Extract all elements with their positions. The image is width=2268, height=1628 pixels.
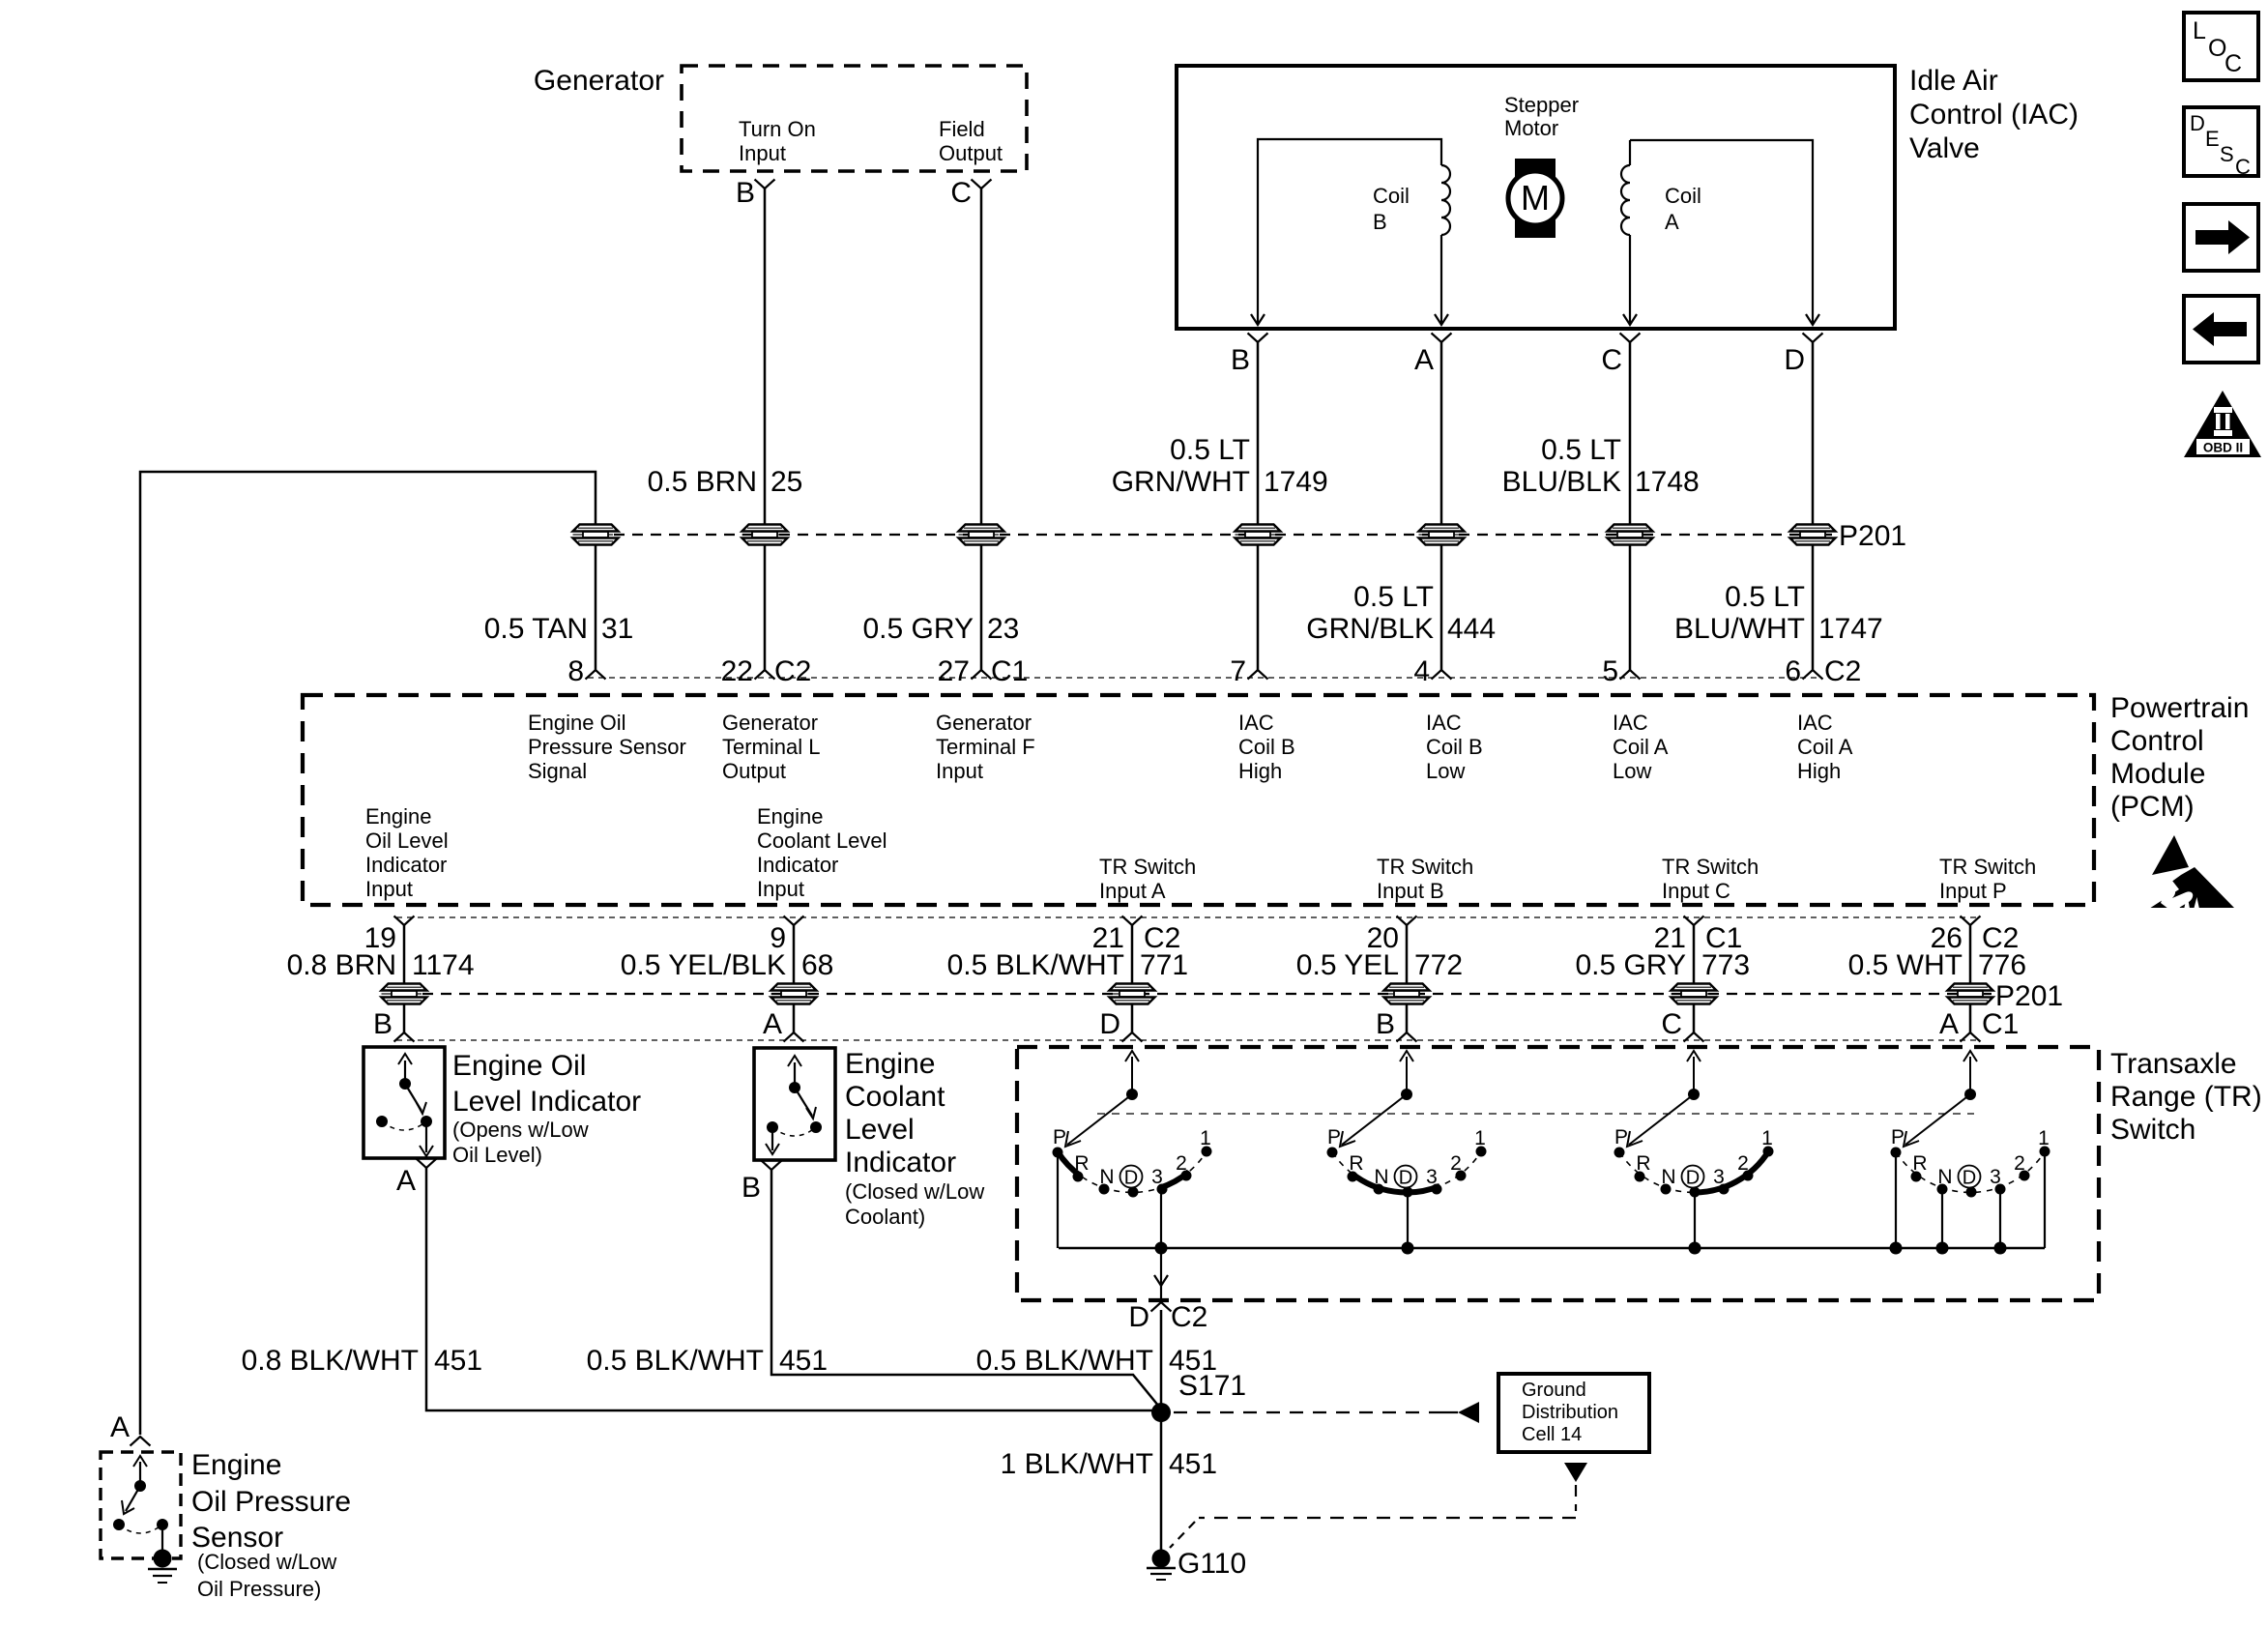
label 0.5 BRN 25	[648, 466, 803, 498]
svg-text:Engine: Engine	[845, 1048, 935, 1080]
TR bus junction at x=2069	[1994, 1242, 2007, 1255]
svg-text:B: B	[1376, 1008, 1395, 1040]
svg-text:Input B: Input B	[1377, 879, 1444, 903]
TR switch pin B	[1376, 1008, 1417, 1042]
connector P201 grommet at x=821 (lower row)	[771, 984, 817, 1004]
svg-text:Input: Input	[365, 877, 413, 901]
svg-text:Input: Input	[757, 877, 804, 901]
label P201 (lower)	[1995, 980, 2063, 1012]
svg-text:1747: 1747	[1818, 613, 1883, 645]
svg-text:773: 773	[1701, 949, 1750, 981]
coolant level indicator pin A	[763, 1008, 804, 1042]
PCM pin 5	[1602, 655, 1640, 687]
svg-text:Indicator: Indicator	[365, 853, 447, 877]
label 0.5 YEL 772	[1296, 949, 1463, 981]
svg-text:C: C	[1661, 1008, 1682, 1040]
svg-text:Output: Output	[939, 141, 1003, 165]
label Powertrain Control Module (PCM)	[2110, 692, 2249, 823]
generator component box (dashed)	[682, 66, 1027, 171]
svg-text:G110: G110	[1178, 1548, 1246, 1580]
svg-text:Turn On: Turn On	[739, 117, 816, 141]
connector P201 grommet at x=2038 (lower row)	[1948, 984, 1993, 1004]
wire 0.5 YEL 772 (PCM to P201 to component)	[1406, 925, 1409, 1032]
svg-text:Level Indicator: Level Indicator	[452, 1086, 641, 1118]
svg-text:High: High	[1238, 759, 1282, 783]
svg-text:A: A	[1414, 344, 1434, 376]
wire 1 BLK/WHT 451 (S171 to G110)	[1160, 1412, 1163, 1551]
legend box LOC	[2184, 13, 2258, 80]
label Stepper Motor	[1504, 93, 1579, 140]
svg-text:Field: Field	[939, 117, 985, 141]
wire 0.5 BLK/WHT 451 (TR switch to S171)	[1160, 1310, 1163, 1412]
svg-text:Generator: Generator	[936, 711, 1032, 735]
svg-text:C1: C1	[1982, 1008, 2019, 1040]
wire 0.5 WHT 776 (PCM to P201 to component)	[1969, 925, 1972, 1032]
svg-text:Coil A: Coil A	[1797, 735, 1853, 759]
label 0.5 GRY 23	[862, 613, 1019, 645]
PCM pin label IAC Coil B Low	[1426, 711, 1483, 783]
svg-text:Indicator: Indicator	[845, 1147, 956, 1178]
svg-text:1: 1	[1761, 1127, 1773, 1149]
svg-text:Transaxle: Transaxle	[2110, 1048, 2237, 1080]
connector P201 grommet at x=418 (lower row)	[382, 984, 427, 1004]
wire 0.5 GRY 773 (PCM to P201 to component)	[1693, 925, 1696, 1032]
TR switch output wire to pin D C2	[1154, 1248, 1168, 1302]
svg-text:0.5 YEL: 0.5 YEL	[1296, 949, 1399, 981]
wire 0.5 TAN 31 (oil pressure sensor to PCM pin 8)	[140, 472, 596, 1435]
svg-text:0.5 LT: 0.5 LT	[1170, 434, 1250, 466]
TR switch pin C	[1661, 1008, 1703, 1042]
generator pin B	[736, 177, 775, 209]
label 0.5 LT GRN/WHT 1749	[1112, 434, 1328, 498]
PCM pin 4	[1413, 655, 1451, 687]
TR switch contact group B (input from PCM 20)	[1327, 1051, 1487, 1248]
label 0.5 YEL/BLK 68	[621, 949, 834, 981]
svg-text:B: B	[373, 1008, 393, 1040]
svg-text:451: 451	[779, 1345, 828, 1377]
inductor Coil A	[1621, 140, 1630, 325]
svg-text:Switch: Switch	[2110, 1114, 2195, 1146]
label Transaxle Range (TR) Switch	[2110, 1048, 2262, 1146]
svg-text:2: 2	[1176, 1152, 1187, 1175]
svg-text:Distribution: Distribution	[1522, 1402, 1618, 1423]
svg-text:R: R	[1636, 1152, 1650, 1175]
label 0.8 BRN 1174	[287, 949, 475, 981]
svg-text:771: 771	[1140, 949, 1188, 981]
PCM bottom pin face line (thin dashed)	[396, 916, 1978, 918]
PCM pin 19	[364, 916, 415, 955]
label 0.5 BLK/WHT 451 (coolant)	[587, 1345, 828, 1377]
TR switch contact group C (input from PCM 21 C1)	[1614, 1051, 1774, 1248]
PCM pin label TR Switch Input B	[1377, 855, 1473, 903]
label 0.8 BLK/WHT 451	[242, 1345, 482, 1377]
TR switch ground bus wire	[1059, 1247, 2045, 1250]
PCM pin 8	[567, 655, 605, 687]
svg-text:0.5 BLK/WHT: 0.5 BLK/WHT	[947, 949, 1124, 981]
svg-text:L: L	[2193, 17, 2206, 44]
svg-text:A: A	[1939, 1008, 1959, 1040]
oil level indicator pin B	[373, 1008, 415, 1042]
svg-text:Signal: Signal	[528, 759, 587, 783]
svg-text:E: E	[2205, 127, 2220, 151]
svg-text:0.5 BRN: 0.5 BRN	[648, 466, 757, 498]
svg-text:C: C	[1601, 344, 1622, 376]
svg-text:C2: C2	[1171, 1301, 1207, 1333]
svg-text:Terminal L: Terminal L	[722, 735, 820, 759]
PCM pin 27 C1	[938, 655, 1029, 687]
svg-text:TR Switch: TR Switch	[1939, 855, 2036, 879]
svg-text:C2: C2	[1824, 655, 1861, 687]
svg-text:5: 5	[1602, 655, 1618, 687]
svg-text:A: A	[1665, 210, 1679, 234]
TR bus junction at x=1753	[1689, 1242, 1701, 1255]
svg-text:0.5 GRY: 0.5 GRY	[1575, 949, 1686, 981]
TR bus junction at x=2009	[1936, 1242, 1949, 1255]
svg-text:Coil B: Coil B	[1426, 735, 1483, 759]
svg-text:Range (TR): Range (TR)	[2110, 1081, 2262, 1113]
svg-text:TR Switch: TR Switch	[1099, 855, 1196, 879]
label Engine Coolant Level Indicator	[845, 1048, 984, 1229]
svg-text:C: C	[950, 177, 972, 209]
TR bus junction at x=1961	[1890, 1242, 1903, 1255]
svg-text:444: 444	[1447, 613, 1496, 645]
PCM pin 21 C2	[1092, 916, 1181, 955]
TR bus junction at x=1456	[1402, 1242, 1414, 1255]
connector P201 grommet at x=1875 (upper row)	[1790, 525, 1836, 545]
PCM pin label IAC Coil A High	[1797, 711, 1853, 783]
svg-text:1 BLK/WHT: 1 BLK/WHT	[1001, 1448, 1153, 1480]
Transaxle Range (TR) Switch box (dashed)	[1017, 1047, 2099, 1300]
svg-text:451: 451	[434, 1345, 482, 1377]
svg-text:0.5 BLK/WHT: 0.5 BLK/WHT	[976, 1345, 1153, 1377]
wire 0.5 GRY 23 (generator C to PCM 27)	[980, 189, 983, 670]
label Generator	[534, 65, 664, 97]
PCM pin label Generator Terminal F Input	[936, 711, 1035, 783]
PCM pin label TR Switch Input C	[1662, 855, 1759, 903]
svg-text:P: P	[1614, 1126, 1628, 1148]
IAC pin C	[1601, 334, 1640, 377]
svg-text:TR Switch: TR Switch	[1377, 855, 1473, 879]
IAC internal arrow at x=1301	[1251, 314, 1265, 325]
coolant level indicator pin B (bottom)	[741, 1161, 782, 1205]
svg-text:D: D	[1399, 1168, 1412, 1189]
connector P201 grommet at x=1686 (upper row)	[1608, 525, 1653, 545]
svg-text:3: 3	[1426, 1166, 1438, 1188]
svg-text:D: D	[2190, 111, 2205, 135]
svg-text:772: 772	[1414, 949, 1463, 981]
oil level indicator pin A (bottom)	[396, 1159, 437, 1198]
svg-text:0.5 LT: 0.5 LT	[1725, 581, 1805, 613]
svg-text:Oil Level): Oil Level)	[452, 1143, 542, 1167]
svg-text:2: 2	[1737, 1152, 1749, 1175]
svg-text:Generator: Generator	[534, 65, 664, 97]
Engine Oil Level Indicator box	[363, 1047, 445, 1158]
svg-text:Powertrain: Powertrain	[2110, 692, 2249, 724]
connector P201 grommet at x=791 (upper row)	[742, 525, 788, 545]
svg-text:Level: Level	[845, 1114, 915, 1146]
wire 0.5 BRN 25 (generator B to PCM 22)	[764, 189, 767, 670]
svg-text:4: 4	[1413, 655, 1430, 687]
TR switch pin A C1	[1939, 1008, 2019, 1042]
svg-text:B: B	[736, 177, 755, 209]
legend box left-arrow	[2184, 296, 2258, 363]
svg-text:22: 22	[721, 655, 753, 687]
svg-text:2: 2	[1450, 1152, 1462, 1175]
PCM pin label Engine Oil Pressure Sensor Signal	[528, 711, 686, 783]
label Coil A	[1665, 184, 1701, 234]
svg-text:23: 23	[987, 613, 1019, 645]
svg-text:N: N	[1937, 1166, 1952, 1188]
coolant level switch symbol	[766, 1056, 822, 1154]
oil pressure sensor pin A	[110, 1411, 151, 1446]
svg-text:0.5 WHT: 0.5 WHT	[1848, 949, 1963, 981]
wire 0.5 BLK/WHT 451 (coolant indicator to S171)	[771, 1170, 1159, 1407]
svg-text:C1: C1	[991, 655, 1028, 687]
dashed reference wire Ground Distribution to G110	[1170, 1463, 1587, 1548]
svg-text:Indicator: Indicator	[757, 853, 838, 877]
Engine Oil Pressure Sensor box (dashed)	[101, 1452, 181, 1558]
svg-text:D: D	[1686, 1168, 1700, 1189]
connector P201 grommet at x=1455 (lower row)	[1384, 984, 1430, 1004]
svg-text:451: 451	[1169, 1448, 1217, 1480]
svg-text:Cell 14: Cell 14	[1522, 1424, 1582, 1445]
svg-text:0.5 BLK/WHT: 0.5 BLK/WHT	[587, 1345, 764, 1377]
svg-text:C: C	[2224, 50, 2242, 77]
svg-text:(Opens w/Low: (Opens w/Low	[452, 1118, 589, 1142]
connector P201 grommet at x=1752 (lower row)	[1672, 984, 1717, 1004]
svg-text:Input P: Input P	[1939, 879, 2007, 903]
svg-text:31: 31	[601, 613, 633, 645]
svg-text:27: 27	[938, 655, 970, 687]
svg-text:3: 3	[1990, 1166, 2001, 1188]
svg-text:(Closed w/Low: (Closed w/Low	[197, 1550, 336, 1574]
svg-text:BLU/WHT: BLU/WHT	[1674, 613, 1805, 645]
svg-text:Control: Control	[2110, 725, 2204, 757]
label Engine Oil Pressure Sensor	[191, 1449, 351, 1601]
svg-text:Oil Level: Oil Level	[365, 829, 449, 853]
wire 0.5 LT GRN/BLK 444 (IAC A to PCM 4)	[1440, 342, 1443, 670]
svg-text:7: 7	[1230, 655, 1246, 687]
label 1 BLK/WHT 451	[1001, 1448, 1217, 1480]
svg-text:1749: 1749	[1264, 466, 1328, 498]
connector P201 grommet at x=1491 (upper row)	[1419, 525, 1465, 545]
coil A wiring (right leg wire)	[1630, 140, 1813, 325]
oil pressure sensor internal ground	[148, 1550, 177, 1584]
svg-text:1174: 1174	[412, 949, 475, 981]
svg-text:Valve: Valve	[1909, 132, 1980, 164]
label Idle Air Control (IAC) Valve	[1909, 65, 2079, 164]
wire 0.5 BLK/WHT 771 (PCM to P201 to component)	[1131, 925, 1134, 1032]
svg-text:Coil: Coil	[1373, 184, 1410, 208]
svg-text:D: D	[1963, 1168, 1976, 1189]
svg-text:C: C	[2235, 155, 2251, 179]
TR switch pin D	[1099, 1008, 1142, 1042]
svg-text:Input: Input	[739, 141, 786, 165]
label 0.5 BLK/WHT 451 (TR)	[976, 1345, 1217, 1377]
IAC internal arrow at x=1875	[1806, 314, 1819, 325]
svg-text:(PCM): (PCM)	[2110, 791, 2195, 823]
svg-text:P201: P201	[1839, 520, 1906, 552]
svg-text:B: B	[741, 1172, 761, 1204]
svg-text:GRN/BLK: GRN/BLK	[1306, 613, 1434, 645]
svg-text:0.8 BLK/WHT: 0.8 BLK/WHT	[242, 1345, 419, 1377]
svg-text:Low: Low	[1613, 759, 1651, 783]
svg-text:D: D	[1784, 344, 1805, 376]
IAC pin D	[1784, 334, 1822, 377]
PCM pin label IAC Coil A Low	[1613, 711, 1669, 783]
PCM pin 6 C2	[1785, 655, 1861, 687]
dashed reference wire S171 to Ground Distribution	[1174, 1402, 1479, 1423]
svg-text:Input: Input	[936, 759, 983, 783]
connector P201 grommet at x=1301 (upper row)	[1236, 525, 1281, 545]
generator pin label Field Output	[939, 117, 1003, 165]
PCM pin label Engine Coolant Level Indicator Input	[757, 804, 887, 901]
svg-text:Motor: Motor	[1504, 116, 1558, 140]
svg-text:R: R	[1349, 1152, 1363, 1175]
svg-text:P: P	[1327, 1126, 1341, 1148]
svg-text:Coolant: Coolant	[845, 1081, 945, 1113]
svg-text:Input C: Input C	[1662, 879, 1730, 903]
svg-text:P: P	[1891, 1126, 1905, 1148]
svg-text:Engine: Engine	[191, 1449, 281, 1481]
svg-text:Ground: Ground	[1522, 1380, 1586, 1401]
legend box right-arrow	[2184, 204, 2258, 271]
svg-text:25: 25	[771, 466, 802, 498]
svg-text:TR Switch: TR Switch	[1662, 855, 1759, 879]
svg-text:Coolant Level: Coolant Level	[757, 829, 887, 853]
PCM pin label IAC Coil B High	[1238, 711, 1295, 783]
svg-text:B: B	[1373, 210, 1387, 234]
svg-text:C2: C2	[774, 655, 811, 687]
svg-text:8: 8	[567, 655, 584, 687]
IAC internal arrow at x=1491	[1435, 314, 1448, 325]
svg-text:N: N	[1099, 1166, 1114, 1188]
inductor Coil B	[1441, 165, 1450, 325]
svg-text:D: D	[1124, 1168, 1138, 1189]
svg-text:B: B	[1231, 344, 1250, 376]
legend symbol OBD II triangle	[2184, 391, 2261, 457]
svg-text:Module: Module	[2110, 758, 2205, 790]
TR switch contact group D (input from PCM 21 C2)	[1053, 1051, 1212, 1248]
Engine Coolant Level Indicator box	[754, 1048, 835, 1160]
svg-text:1: 1	[1474, 1127, 1486, 1149]
PCM pin 26 C2	[1931, 916, 2020, 955]
svg-text:Stepper: Stepper	[1504, 93, 1579, 117]
TR bus junction at x=1201	[1155, 1242, 1168, 1255]
svg-text:IAC: IAC	[1426, 711, 1462, 735]
label P201 (upper)	[1839, 520, 1906, 552]
svg-text:1: 1	[2038, 1127, 2050, 1149]
splice S171	[1151, 1370, 1246, 1422]
svg-text:1748: 1748	[1635, 466, 1700, 498]
PCM pin label Generator Terminal L Output	[722, 711, 820, 783]
svg-text:Oil Pressure: Oil Pressure	[191, 1486, 351, 1518]
legend box DESC	[2184, 107, 2258, 179]
label 0.5 WHT 776	[1848, 949, 2026, 981]
svg-text:IAC: IAC	[1797, 711, 1833, 735]
svg-text:776: 776	[1978, 949, 2026, 981]
TR switch contact group P (input from PCM 26 C2)	[1891, 1051, 2050, 1248]
svg-text:Coolant): Coolant)	[845, 1205, 925, 1229]
svg-text:0.5 LT: 0.5 LT	[1353, 581, 1434, 613]
svg-text:BLU/BLK: BLU/BLK	[1502, 466, 1621, 498]
svg-text:GRN/WHT: GRN/WHT	[1112, 466, 1250, 498]
Ground Distribution Cell 14 box	[1498, 1374, 1649, 1452]
svg-text:Coil: Coil	[1665, 184, 1701, 208]
connector P201 grommet at x=1015 (upper row)	[959, 525, 1004, 545]
svg-text:M: M	[1521, 178, 1550, 218]
TR switch pin D C2 (bottom)	[1128, 1301, 1207, 1333]
svg-text:A: A	[763, 1008, 782, 1040]
svg-text:Engine Oil: Engine Oil	[528, 711, 626, 735]
label 0.5 LT BLU/WHT 1747	[1674, 581, 1883, 645]
svg-text:0.5 GRY: 0.5 GRY	[862, 613, 974, 645]
stepper motor M symbol	[1508, 159, 1562, 238]
svg-text:A: A	[396, 1165, 416, 1197]
svg-text:Engine Oil: Engine Oil	[452, 1050, 586, 1082]
svg-text:Engine: Engine	[757, 804, 824, 829]
svg-text:Input A: Input A	[1099, 879, 1166, 903]
IAC pin A	[1414, 334, 1452, 377]
svg-text:0.8 BRN: 0.8 BRN	[287, 949, 396, 981]
svg-text:3: 3	[1151, 1166, 1163, 1188]
connector P201 grommet at x=1171 (lower row)	[1110, 984, 1155, 1004]
svg-text:IAC: IAC	[1613, 711, 1648, 735]
coil B wiring (left leg wire)	[1258, 139, 1441, 325]
connector P201 lower pass-through line (dashed)	[404, 993, 1992, 995]
label 0.5 TAN 31	[484, 613, 634, 645]
PCM pin 20	[1367, 916, 1417, 955]
svg-text:OBD II: OBD II	[2203, 441, 2243, 455]
svg-text:68: 68	[801, 949, 833, 981]
component pin face line (thin dashed)	[396, 1039, 1978, 1041]
PCM pin 9	[770, 916, 803, 955]
label Coil B	[1373, 184, 1410, 234]
svg-text:Coil B: Coil B	[1238, 735, 1295, 759]
label 0.5 BLK/WHT 771	[947, 949, 1188, 981]
wire 0.8 BRN 1174 (PCM to P201 to component)	[403, 925, 406, 1032]
oil level switch symbol	[376, 1054, 433, 1156]
label 0.5 GRY 773	[1575, 949, 1750, 981]
svg-text:Engine: Engine	[365, 804, 432, 829]
IAC pin B	[1231, 334, 1268, 377]
oil pressure switch symbol	[113, 1456, 168, 1553]
svg-text:R: R	[1912, 1152, 1927, 1175]
svg-text:Control (IAC): Control (IAC)	[1909, 99, 2079, 131]
wire 0.5 YEL/BLK 68 (PCM to P201 to component)	[793, 925, 796, 1032]
svg-text:D: D	[1128, 1301, 1149, 1333]
svg-text:2: 2	[2014, 1152, 2025, 1175]
svg-text:Coil A: Coil A	[1613, 735, 1669, 759]
svg-text:(Closed w/Low: (Closed w/Low	[845, 1179, 984, 1204]
connector P201 grommet at x=616 (upper row)	[573, 525, 619, 545]
svg-text:Generator: Generator	[722, 711, 818, 735]
svg-text:Idle Air: Idle Air	[1909, 65, 1998, 97]
wire 0.8 BLK/WHT 451 (oil level indicator to S171)	[426, 1168, 1156, 1410]
PCM pin 21 C1	[1654, 916, 1743, 955]
svg-text:Terminal F: Terminal F	[936, 735, 1035, 759]
wire 0.5 LT BLU/BLK 1748 (IAC C to PCM 5)	[1629, 342, 1632, 670]
ground G110	[1147, 1548, 1246, 1580]
svg-text:Low: Low	[1426, 759, 1465, 783]
wire 0.5 LT GRN/WHT 1749 (IAC B to PCM 7)	[1257, 342, 1260, 670]
svg-text:D: D	[1099, 1008, 1120, 1040]
svg-text:1: 1	[1200, 1127, 1211, 1149]
svg-text:S: S	[2220, 142, 2234, 166]
svg-text:Output: Output	[722, 759, 786, 783]
PCM pin label TR Switch Input A	[1099, 855, 1196, 903]
svg-text:0.5 LT: 0.5 LT	[1541, 434, 1621, 466]
